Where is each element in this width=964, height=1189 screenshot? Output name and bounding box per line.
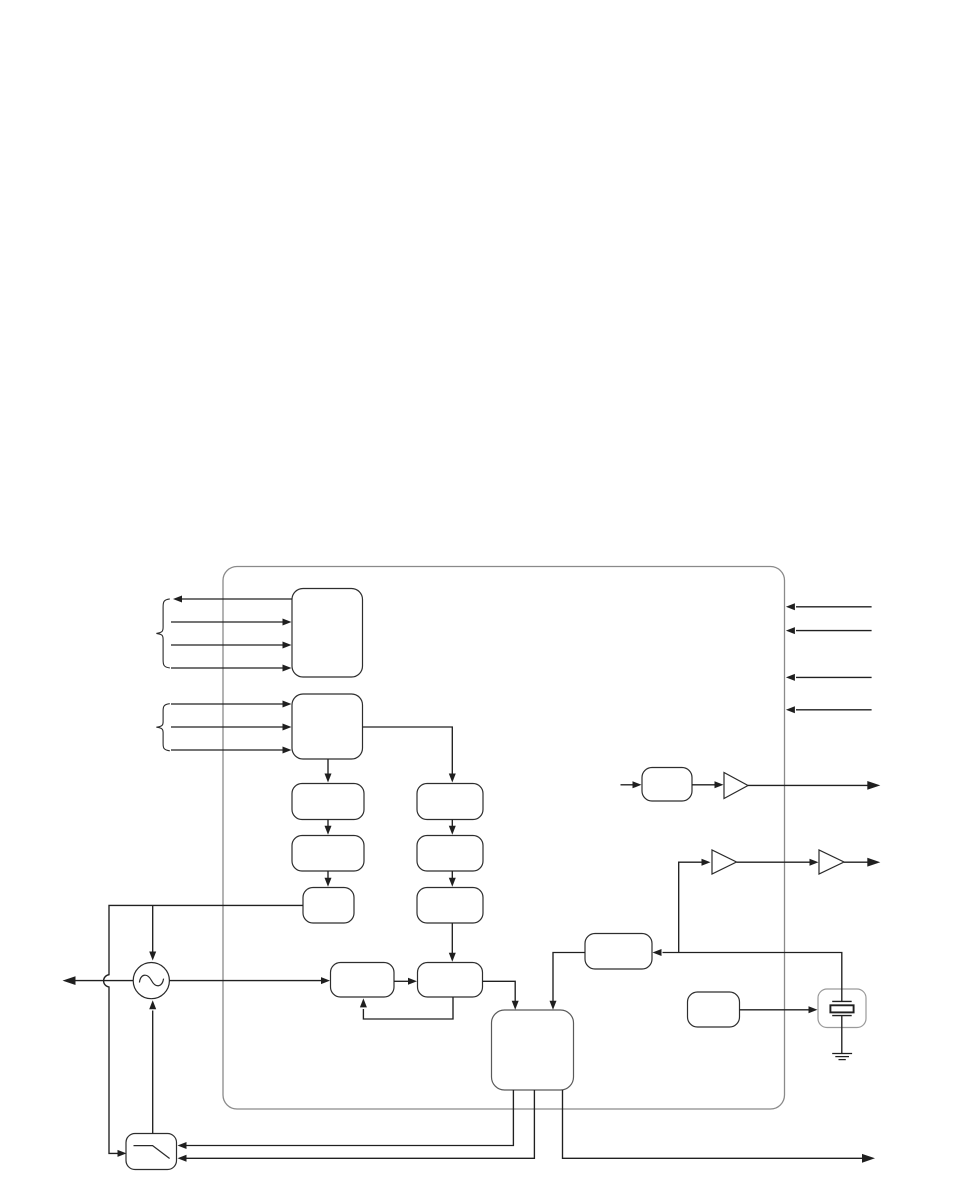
- wire U2 to U6: [363, 727, 453, 775]
- brace for bus group 1: [156, 599, 169, 668]
- arrowhead right input pin4: [786, 706, 795, 713]
- block U6 right chain A: [417, 784, 483, 820]
- arrowhead into U10 left: [408, 978, 417, 985]
- arrowhead into OSC1 bottom: [149, 1000, 156, 1009]
- crystal enclosure Y1: [818, 989, 866, 1028]
- block U5 left chain C: [303, 888, 354, 924]
- arrowhead into T2: [702, 859, 711, 866]
- wire crystal net to U12: [663, 953, 842, 1002]
- wire crystal bottom to ground: [841, 1016, 843, 1054]
- wire U7 to U8: [451, 871, 453, 880]
- arrowhead into T3: [810, 859, 819, 866]
- block U7 right chain B: [417, 836, 483, 872]
- wire bus line 5: [171, 703, 284, 705]
- arrowhead bus line7 into U2: [283, 747, 292, 754]
- wire bus line 7: [171, 749, 284, 751]
- block U2 interface: [292, 694, 363, 759]
- block U9 phase accumulator: [331, 963, 395, 998]
- arrowhead into U11 left: [633, 781, 642, 788]
- arrowhead pin1 into filter right: [178, 1142, 187, 1149]
- arrowhead into OSC1 top: [149, 952, 156, 961]
- block U8 right chain C: [417, 888, 483, 924]
- wire bus line 1 (out): [181, 598, 292, 600]
- wire input to U11: [621, 784, 635, 786]
- wire OSC1 output right to U9: [169, 980, 322, 982]
- block U3 left chain A: [292, 784, 364, 820]
- wire OSC1 output left: [76, 980, 134, 982]
- low-pass filter symbol inside U14: [134, 1146, 170, 1159]
- arrowhead into U4 top: [325, 826, 332, 835]
- buffer amp T2: [712, 850, 737, 874]
- arrowhead into U15 top left: [512, 1001, 519, 1010]
- arrowhead bus line1 out (big, left): [173, 596, 182, 603]
- wire T3 output: [844, 861, 868, 863]
- wire bus line 2: [171, 621, 284, 623]
- crystal Y1 top plate: [832, 1000, 852, 1002]
- arrowhead into U6 top: [449, 774, 456, 783]
- block U15 central DAC core: [492, 1010, 574, 1090]
- wire tap down to OSC1 top: [152, 905, 154, 953]
- wire T1 output: [748, 784, 868, 786]
- arrowhead T3 big output: [867, 858, 880, 867]
- wire right input pin 3: [796, 676, 872, 678]
- arrowhead OSC1 big output left: [63, 976, 76, 985]
- arrowhead into filter U14 left: [118, 1150, 127, 1157]
- block U4 left chain B: [292, 836, 364, 872]
- wire U13 to crystal Y1: [740, 1009, 811, 1011]
- wire right input pin 2: [796, 630, 872, 632]
- block U12 sync: [585, 934, 652, 970]
- arrowhead into U9 left: [321, 977, 330, 984]
- arrowhead pin2 into filter right: [178, 1155, 187, 1162]
- arrowhead bus line3 into U1: [283, 642, 292, 649]
- wire U5 tap to left rail and filter input: [104, 905, 303, 1153]
- crystal Y1 body: [830, 1005, 853, 1012]
- wire right input pin 1: [796, 606, 872, 608]
- wire filter U14 to OSC1 bottom: [152, 1011, 154, 1134]
- arrowhead into U5 top: [325, 878, 332, 887]
- arrowhead bus line5 into U2: [283, 701, 292, 708]
- wire U9 to U10: [394, 980, 410, 982]
- wire U8 to U10: [451, 923, 453, 955]
- wire U10 to U15: [483, 981, 516, 1003]
- wire T2 to T3: [737, 861, 812, 863]
- arrowhead T1 big output: [867, 781, 880, 790]
- wire U4 to U5: [327, 871, 329, 880]
- crystal Y1 bottom plate: [832, 1015, 852, 1017]
- buffer amp T3: [819, 850, 844, 874]
- wire U15 pin1 to filter: [187, 1090, 514, 1146]
- arrowhead into U8 top: [449, 878, 456, 887]
- oscillator source OSC1: [133, 963, 169, 999]
- arrowhead right input pin2: [786, 627, 795, 634]
- block U11 output buffer stage: [642, 768, 692, 802]
- wire U11 to T1: [692, 784, 716, 786]
- block U10 DAC control: [418, 963, 483, 998]
- arrowhead right input pin1: [786, 603, 795, 610]
- arrowhead into U10 top: [449, 953, 456, 962]
- arrowhead into U12 right: [653, 949, 662, 956]
- block U13 oscillator control: [688, 992, 740, 1027]
- wire U3 to U4: [327, 820, 329, 828]
- wire U15 pin3 output: [563, 1090, 863, 1158]
- arrowhead into T1: [715, 781, 724, 788]
- arrowhead into crystal Y1 left: [809, 1006, 818, 1013]
- wire U6 to U7: [451, 820, 453, 828]
- arrowhead bus line4 into U1: [283, 665, 292, 672]
- arrowhead into U15 top right: [550, 1001, 557, 1010]
- wire U10 feedback to U9: [363, 997, 453, 1019]
- arrowhead bus line6 into U2: [283, 724, 292, 731]
- arrowhead into U7 top: [449, 826, 456, 835]
- ground symbol: [832, 1054, 852, 1060]
- buffer amp T1: [724, 773, 748, 799]
- wire bus line 6: [171, 726, 284, 728]
- container: IC boundary outline: [223, 567, 785, 1110]
- block U1 control/status registers: [292, 589, 363, 678]
- wire right input pin 4: [796, 709, 872, 711]
- sine symbol inside OSC1: [139, 975, 163, 986]
- brace for bus group 2: [156, 704, 169, 751]
- wire U15 pin2 to filter: [187, 1090, 535, 1158]
- arrowhead feedback into U9 bottom: [360, 998, 367, 1007]
- arrowhead pin3 big output right: [862, 1154, 875, 1163]
- wire junction to buffer T2: [679, 862, 703, 952]
- arrowhead bus line2 into U1: [283, 619, 292, 626]
- wire bus line 3: [171, 644, 284, 646]
- arrowhead into U3 top: [325, 774, 332, 783]
- wire U12 to U15: [553, 953, 585, 1003]
- arrowhead right input pin3: [786, 674, 795, 681]
- wire U2 to U3: [327, 759, 329, 775]
- block U14 loop filter: [126, 1134, 177, 1170]
- wire bus line 4: [171, 667, 284, 669]
